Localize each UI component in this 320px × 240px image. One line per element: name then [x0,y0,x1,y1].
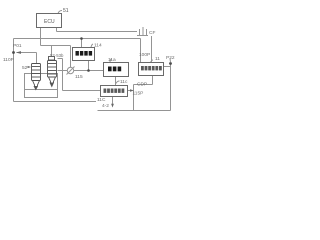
svg-text:100P: 100P [139,52,150,58]
svg-text:ECU: ECU [44,19,55,25]
svg-text:4-2: 4-2 [102,103,109,109]
svg-text:11: 11 [155,56,160,62]
svg-text:CDP: CDP [137,82,147,88]
svg-text:CF: CF [149,30,155,36]
svg-text:11c: 11c [120,79,128,85]
svg-text:51: 51 [63,8,69,14]
svg-text:11C: 11C [97,97,106,103]
svg-text:115P: 115P [133,91,144,97]
svg-text:110P: 110P [3,57,14,63]
svg-text:114: 114 [94,43,102,49]
svg-text:P01: P01 [13,43,22,49]
svg-text:52: 52 [22,65,28,71]
svg-text:115: 115 [75,74,83,80]
svg-text:P22: P22 [166,55,175,61]
svg-text:52·53b: 52·53b [50,53,64,58]
svg-text:11a: 11a [108,57,116,63]
